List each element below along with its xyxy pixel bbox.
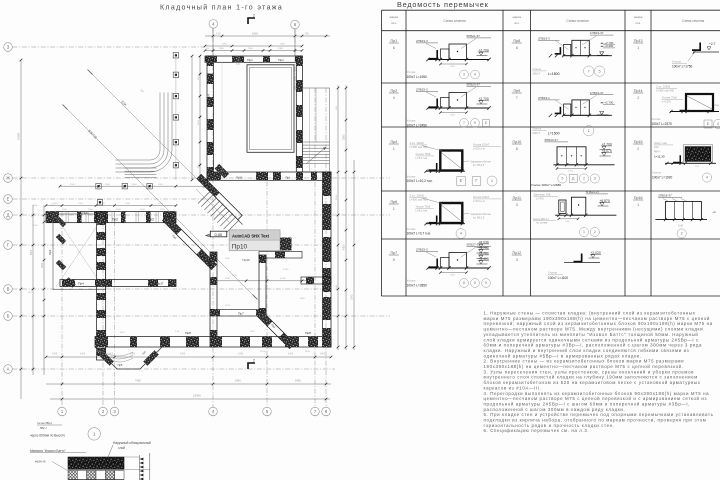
svg-text:1200: 1200 <box>125 203 131 205</box>
svg-text:60мм и поперечной арматуры #3: 60мм и поперечной арматуры #3Вр—I, распо… <box>484 343 703 348</box>
svg-text:#10А-III: #10А-III <box>35 460 46 464</box>
svg-text:2580: 2580 <box>278 48 284 50</box>
svg-text:укладывается утеплитель из мин: укладывается утеплитель из минплиты "Изо… <box>484 332 699 337</box>
svg-text:Пр9: Пр9 <box>514 89 521 93</box>
svg-text:Пр4: Пр4 <box>391 140 398 144</box>
svg-text:2ПБ25-3: 2ПБ25-3 <box>416 248 428 252</box>
svg-text:Уголок: Уголок <box>652 171 662 175</box>
svg-text:Кладочный план 1-го этажа: Кладочный план 1-го этажа <box>160 4 283 12</box>
svg-text:4: 4 <box>706 176 708 180</box>
svg-text:100х7: 100х7 <box>532 131 540 135</box>
svg-text:7240: 7240 <box>351 294 354 300</box>
svg-text:горизонтальность рядов и прочн: горизонтальность рядов и прочность кладк… <box>484 423 615 428</box>
svg-text:Пр2: Пр2 <box>148 218 154 222</box>
svg-text:продольной арматуры 2#5Вр—I с: продольной арматуры 2#5Вр—I с шагом 60мм… <box>484 402 691 407</box>
svg-text:1: 1 <box>393 147 395 151</box>
svg-text:Уголок: Уголок <box>672 60 682 64</box>
svg-text:#8А-I: #8А-I <box>654 150 661 154</box>
svg-text:марки М75 размерами 190х390х18: марки М75 размерами 190х390х188(h) на це… <box>484 316 710 321</box>
svg-text:1970: 1970 <box>568 171 574 173</box>
svg-text:4-300: 4-300 <box>280 278 286 280</box>
svg-text:1ПБ19-37: 1ПБ19-37 <box>590 91 604 95</box>
svg-text:100х7 L=1920: 100х7 L=1920 <box>652 176 673 180</box>
svg-text:Уголок: Уголок <box>407 227 417 231</box>
svg-text:7450: 7450 <box>135 379 141 383</box>
svg-text:4: 4 <box>474 73 476 77</box>
svg-text:1950: 1950 <box>450 115 456 117</box>
svg-text:L=5,0 п.м: L=5,0 п.м <box>473 146 485 150</box>
svg-text:100х7 L=2850: 100х7 L=2850 <box>407 284 428 288</box>
svg-text:5ПБ21-37: 5ПБ21-37 <box>467 34 481 38</box>
svg-text:одиночной арматуры #5Вр—I: одиночной арматуры #5Вр—I в армированных… <box>484 353 642 358</box>
svg-text:Уголок 75х6: Уголок 75х6 <box>416 152 431 156</box>
svg-text:3: 3 <box>463 73 465 77</box>
svg-text:Уголок: Уголок <box>532 67 542 71</box>
svg-text:Уголок: Уголок <box>548 271 558 275</box>
svg-text:расположенной с шагом 300мм в: расположенной с шагом 300мм в каждом ряд… <box>484 407 626 412</box>
svg-text:+2.700: +2.700 <box>604 101 613 105</box>
svg-text:2: 2 <box>594 230 596 234</box>
svg-text:2980: 2980 <box>343 134 346 140</box>
svg-text:Пр2: Пр2 <box>112 218 118 222</box>
svg-text:2 шт. 100х8: 2 шт. 100х8 <box>656 85 671 89</box>
svg-text:AutoCAD SHX Text: AutoCAD SHX Text <box>232 234 270 239</box>
svg-text:19060: 19060 <box>17 132 21 140</box>
svg-text:2580: 2580 <box>219 48 225 50</box>
svg-text:Пр12: Пр12 <box>513 251 522 255</box>
svg-text:19490: 19490 <box>193 394 201 398</box>
svg-text:Пр14: Пр14 <box>634 89 643 93</box>
svg-text:1400: 1400 <box>52 354 58 356</box>
svg-text:Уголок 100х7 L=2680: Уголок 100х7 L=2680 <box>531 183 561 187</box>
svg-text:кл. В12,5: кл. В12,5 <box>473 163 485 167</box>
svg-text:7: 7 <box>463 121 465 125</box>
svg-text:Пр7: Пр7 <box>238 312 244 316</box>
svg-text:100х7: 100х7 <box>532 72 540 76</box>
svg-text:через 600мм по Высоте: через 600мм по Высоте <box>30 434 65 438</box>
svg-text:кладки. Наружный и внутренний: кладки. Наружный и внутренний слои кладк… <box>484 348 690 353</box>
svg-text:6400: 6400 <box>252 32 258 36</box>
svg-text:поз.: поз. <box>391 21 397 25</box>
svg-text:блоков керамзитобетоном из 5: блоков керамзитобетоном из 520 на керамз… <box>484 380 701 385</box>
svg-text:2ПБ19-1: 2ПБ19-1 <box>538 96 550 100</box>
svg-text:подкладки из кирпича набора, о: подкладки из кирпича набора, отобранного… <box>484 418 707 423</box>
svg-text:Пр1: Пр1 <box>278 58 284 62</box>
svg-text:5: 5 <box>474 281 476 285</box>
svg-text:А: А <box>7 367 10 372</box>
svg-text:100х7 L=2370: 100х7 L=2370 <box>652 122 673 126</box>
svg-text:5ПБ21-37: 5ПБ21-37 <box>586 190 600 194</box>
svg-text:100х7 L=0,7 п.м.: 100х7 L=0,7 п.м. <box>407 232 431 236</box>
svg-text:Уголок 100х7: Уголок 100х7 <box>473 195 490 199</box>
svg-text:Пр8: Пр8 <box>328 247 332 253</box>
svg-text:2. Внутренние стены — из ке: 2. Внутренние стены — из керамзитобетонн… <box>484 359 685 364</box>
svg-text:Керамзитобетон: Керамзитобетон <box>471 212 492 216</box>
svg-text:190х390х188(h) на цементно—пес: 190х390х188(h) на цементно—песчаном раст… <box>484 364 684 369</box>
svg-text:2580: 2580 <box>248 48 254 50</box>
svg-text:4: 4 <box>393 96 395 100</box>
svg-text:Уголок: Уголок <box>407 70 417 74</box>
svg-text:100х7 L=1950: 100х7 L=1950 <box>407 75 428 79</box>
svg-text:слой: слой <box>118 446 125 450</box>
svg-text:9: 9 <box>474 121 476 125</box>
svg-text:1: 1 <box>583 230 585 234</box>
svg-text:1: 1 <box>393 207 395 211</box>
svg-text:Пр4: Пр4 <box>207 124 211 130</box>
svg-text:1400: 1400 <box>238 354 244 356</box>
svg-text:Схема сечения: Схема сечения <box>443 19 466 23</box>
svg-text:Уголок: Уголок <box>532 127 542 131</box>
svg-text:2ПБ19-3: 2ПБ19-3 <box>416 39 428 43</box>
svg-text:1200: 1200 <box>78 203 84 205</box>
svg-text:Б: Б <box>7 314 10 319</box>
svg-text:3ПБ44-37: 3ПБ44-37 <box>544 138 558 142</box>
svg-text:1: 1 <box>588 129 590 133</box>
svg-text:марка: марка <box>390 15 399 19</box>
svg-text:Пр9: Пр9 <box>328 306 332 312</box>
svg-text:Уголок: Уголок <box>407 175 417 179</box>
svg-text:Керамзитобетон: Керамзитобетон <box>471 160 492 164</box>
svg-text:Д: Д <box>572 177 575 181</box>
svg-text:1ПБ19-37: 1ПБ19-37 <box>590 31 604 35</box>
svg-text:марка: марка <box>634 15 643 19</box>
svg-text:+3.400: +3.400 <box>604 44 613 48</box>
svg-text:цементно—песчаном растворе М75: цементно—песчаном растворе М75. Между вн… <box>484 327 704 332</box>
svg-text:Уголок: Уголок <box>652 117 662 121</box>
svg-text:2980: 2980 <box>42 262 44 268</box>
svg-text:Пр4: Пр4 <box>82 211 88 215</box>
svg-text:9: 9 <box>485 281 487 285</box>
svg-text:каркасов из #10А—III.: каркасов из #10А—III. <box>484 385 542 390</box>
svg-text:Схема сечения: Схема сечения <box>682 19 705 23</box>
svg-text:14010: 14010 <box>260 351 267 353</box>
svg-text:2: 2 <box>583 177 585 181</box>
svg-text:Кер: Кер <box>715 104 720 107</box>
svg-text:Е: Е <box>707 122 710 126</box>
svg-text:0.30: 0.30 <box>216 34 221 36</box>
svg-text:3: 3 <box>516 203 518 207</box>
svg-text:поз.: поз. <box>514 21 520 25</box>
svg-text:3. Узлы пересечения стен, уз: 3. Узлы пересечения стен, узлы простенко… <box>484 369 695 374</box>
svg-text:5: 5 <box>599 69 601 73</box>
svg-text:Минвата "Изовол Баттс": Минвата "Изовол Баттс" <box>30 449 66 453</box>
svg-text:Пр10: Пр10 <box>232 244 248 251</box>
svg-text:марка: марка <box>513 15 522 19</box>
svg-text:внутреннего слоя слоистой клад: внутреннего слоя слоистой кладки на глуб… <box>484 375 698 380</box>
svg-text:2: 2 <box>681 232 683 236</box>
svg-text:+2.: +2. <box>712 210 716 214</box>
svg-text:2: 2 <box>637 96 639 100</box>
svg-text:100х7 L=10,2 п.м.: 100х7 L=10,2 п.м. <box>407 179 433 183</box>
svg-text:Анкер Ø8 А-I: Анкер Ø8 А-I <box>533 217 549 221</box>
svg-text:4000: 4000 <box>343 244 346 250</box>
svg-text:L=5,0 п.м: L=5,0 п.м <box>416 209 428 213</box>
svg-text:L=1800: L=1800 <box>548 72 560 76</box>
svg-text:1400: 1400 <box>180 354 186 356</box>
svg-text:1300: 1300 <box>565 221 571 223</box>
svg-text:1950: 1950 <box>450 275 456 277</box>
svg-text:Пр1: Пр1 <box>391 39 398 43</box>
svg-text:1400: 1400 <box>320 354 326 356</box>
svg-text:Уголок: Уголок <box>407 119 417 123</box>
svg-text:150: 150 <box>654 145 659 149</box>
svg-text:Пр1Г: Пр1Г <box>157 282 164 286</box>
svg-text:1: 1 <box>637 46 639 50</box>
svg-text:Наружный облицовочный: Наружный облицовочный <box>113 441 151 445</box>
svg-text:2ПБ19-3: 2ПБ19-3 <box>538 36 550 40</box>
svg-text:Швеллер 16Б: Швеллер 16Б <box>534 193 551 197</box>
svg-text:Пр11: Пр11 <box>513 196 521 200</box>
svg-text:Пр6: Пр6 <box>391 200 398 204</box>
svg-text:4-990: 4-990 <box>283 269 289 271</box>
svg-text:по схеме: по схеме <box>536 222 548 225</box>
svg-text:90-90: 90-90 <box>225 305 231 307</box>
svg-text:5Вр-I: 5Вр-I <box>40 426 47 430</box>
svg-text:2ПБ18-37: 2ПБ18-37 <box>658 194 672 198</box>
svg-text:Пр15: Пр15 <box>634 140 643 144</box>
svg-text:7: 7 <box>516 96 518 100</box>
svg-text:4. Перегородки выполнять из: 4. Перегородки выполнять из керамзитобет… <box>484 391 710 396</box>
svg-text:1950: 1950 <box>450 66 456 68</box>
svg-text:3: 3 <box>516 258 518 262</box>
svg-text:2 шт. 100х8: 2 шт. 100х8 <box>410 141 425 145</box>
svg-text:Уголок 75х6: Уголок 75х6 <box>416 205 431 209</box>
svg-text:2: 2 <box>637 147 639 151</box>
svg-text:Пр13: Пр13 <box>242 258 249 262</box>
svg-text:4: 4 <box>717 122 719 126</box>
svg-text:5: 5 <box>561 177 563 181</box>
svg-text:2ПБ25-3: 2ПБ25-3 <box>416 88 428 92</box>
svg-text:Пр10: Пр10 <box>236 176 243 180</box>
svg-text:0.00: 0.00 <box>215 232 224 237</box>
svg-text:L=300 шаг 900: L=300 шаг 900 <box>410 145 429 149</box>
svg-text:6. Спецификацию перемычек см: 6. Спецификацию перемычек см. на л.3. <box>484 428 590 433</box>
svg-text:Пр1: Пр1 <box>247 58 253 62</box>
svg-text:кл. В12,5: кл. В12,5 <box>473 216 485 220</box>
svg-text:Ведомость перемычек: Ведомость перемычек <box>397 0 489 9</box>
svg-text:Уголок 75х6: Уголок 75х6 <box>662 96 677 100</box>
svg-text:5: 5 <box>393 258 395 262</box>
svg-text:Сетка 5Вр-I: Сетка 5Вр-I <box>37 421 52 425</box>
svg-text:1: 1 <box>637 203 639 207</box>
svg-text:Уголок: Уголок <box>407 279 417 283</box>
svg-text:Уголок 100х7: Уголок 100х7 <box>473 143 490 147</box>
svg-text:6: 6 <box>516 46 518 50</box>
svg-text:5960: 5960 <box>31 249 33 255</box>
svg-text:Хомут шаг: Хомут шаг <box>654 141 667 145</box>
svg-text:Пр4: Пр4 <box>207 147 211 153</box>
svg-text:5. При кладке стен и устройс: 5. При кладке стен и устройстве перемыче… <box>484 412 714 417</box>
svg-text:8: 8 <box>516 147 518 151</box>
svg-text:Схема сечения: Схема сечения <box>566 19 589 23</box>
svg-text:1900: 1900 <box>225 278 231 280</box>
svg-text:5ПБ25-37: 5ПБ25-37 <box>467 83 481 87</box>
svg-text:L=700: L=700 <box>536 197 544 201</box>
svg-text:2 шт. 100х8: 2 шт. 100х8 <box>410 194 425 198</box>
svg-text:Д: Д <box>7 213 10 218</box>
svg-text:перевязкой; наружный слой из к: перевязкой; наружный слой из керамзитобе… <box>484 321 713 326</box>
svg-text:L=5,0 п.м: L=5,0 п.м <box>416 156 428 160</box>
svg-text:L=1500: L=1500 <box>548 132 560 136</box>
svg-text:5-40: 5-40 <box>678 224 684 227</box>
svg-text:Ж: Ж <box>6 176 10 181</box>
svg-text:5450: 5450 <box>295 379 301 383</box>
svg-text:Пр8: Пр8 <box>514 39 521 43</box>
svg-text:L=5,0 п.м: L=5,0 п.м <box>473 199 485 203</box>
svg-text:Пр8: Пр8 <box>305 331 311 335</box>
svg-text:7: 7 <box>588 69 590 73</box>
svg-text:L=11.30: L=11.30 <box>654 155 665 159</box>
svg-text:Пр4: Пр4 <box>48 249 52 255</box>
svg-text:2: 2 <box>253 359 255 363</box>
svg-text:2: 2 <box>253 14 255 18</box>
svg-text:100х7 L=2450: 100х7 L=2450 <box>407 124 428 128</box>
svg-text:2100: 2100 <box>198 119 200 125</box>
svg-text:Пр7: Пр7 <box>391 251 398 255</box>
svg-text:Пр1: Пр1 <box>286 176 291 180</box>
svg-text:Пр16: Пр16 <box>634 196 643 200</box>
svg-text:Пр10: Пр10 <box>513 140 522 144</box>
svg-text:Пр4: Пр4 <box>78 282 84 286</box>
svg-text:слой кладки армируется одиночн: слой кладки армируется одиночными сеткам… <box>484 337 700 342</box>
svg-text:Е: Е <box>460 178 463 183</box>
svg-text:1. Наружные стены — слоистая: 1. Наружные стены — слоистая кладка: (вн… <box>484 311 696 316</box>
svg-text:+2.7: +2.7 <box>709 42 716 46</box>
svg-text:5450: 5450 <box>235 379 241 383</box>
svg-text:100х7 L=1100: 100х7 L=1100 <box>548 276 568 280</box>
svg-text:6: 6 <box>393 46 395 50</box>
svg-text:1400: 1400 <box>288 354 294 356</box>
svg-text:В: В <box>7 287 10 292</box>
svg-text:Пр5: Пр5 <box>118 363 123 367</box>
svg-text:Пр4: Пр4 <box>207 94 211 100</box>
svg-text:1400: 1400 <box>80 354 86 356</box>
svg-text:поз.: поз. <box>635 21 641 25</box>
svg-text:цементно—песчаном растворе М75: цементно—песчаном растворе М75 с цепной … <box>484 396 708 401</box>
svg-text:Пр13: Пр13 <box>634 39 643 43</box>
svg-text:Пр4в: Пр4в <box>97 233 101 240</box>
svg-text:8: 8 <box>463 281 465 285</box>
svg-text:L=300 шаг 900: L=300 шаг 900 <box>656 88 675 92</box>
svg-text:Е: Е <box>7 197 10 202</box>
svg-text:100х7 L=1750: 100х7 L=1750 <box>672 64 693 68</box>
svg-text:3: 3 <box>594 177 596 181</box>
svg-text:Пр8: Пр8 <box>185 331 191 335</box>
svg-text:L=1370: L=1370 <box>662 99 672 103</box>
svg-text:L=300 шаг 900: L=300 шаг 900 <box>410 197 429 201</box>
svg-text:Пр2: Пр2 <box>391 89 398 93</box>
